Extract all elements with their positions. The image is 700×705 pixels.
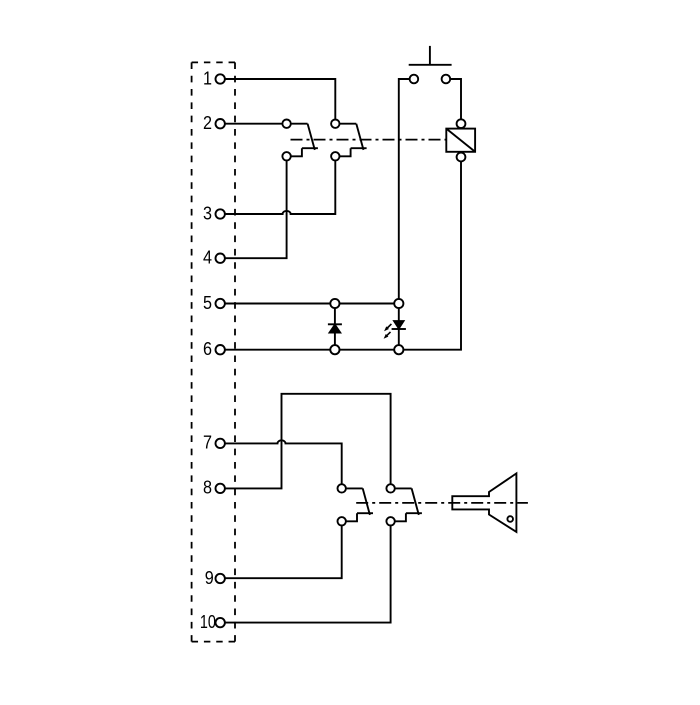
switch contact S2 pole 1: [338, 484, 374, 525]
wire terminal3 to switch2 make contact (hop over wire4 vertical): [225, 161, 335, 215]
wire pushbutton left lead down to terminal5 node: [399, 79, 410, 299]
wire pushbutton right lead down to relay coil top: [450, 79, 461, 119]
mechanical linkage top (switches to relay): [291, 139, 447, 141]
svg-text:4: 4: [203, 248, 212, 268]
LED V2: [384, 321, 406, 338]
diode V1: [328, 324, 342, 332]
pushbutton contact terminals: [410, 75, 451, 84]
terminal 7: [203, 433, 225, 453]
terminal 1: [203, 68, 225, 88]
wire LED branch: [398, 308, 400, 345]
terminal 9: [205, 568, 225, 588]
svg-text:6: 6: [203, 339, 212, 359]
svg-text:10: 10: [200, 612, 216, 632]
svg-text:9: 9: [205, 568, 214, 588]
wire terminal5 to LED node: [225, 303, 399, 305]
svg-text:2: 2: [203, 113, 212, 133]
svg-text:1: 1: [203, 68, 212, 88]
node circle wire5 LED: [394, 299, 403, 308]
node circle wire5 diode: [330, 299, 339, 308]
switch contact S1 pole 2: [331, 120, 367, 161]
terminal 3: [203, 203, 225, 223]
terminal 10: [200, 612, 225, 632]
wire terminal6 to relay coil bottom: [225, 161, 461, 349]
wire terminal10 to switch4 make contact: [225, 526, 391, 623]
svg-text:7: 7: [203, 433, 212, 453]
terminal 4: [203, 248, 225, 268]
terminal 8: [203, 478, 225, 498]
key actuator: [452, 473, 516, 532]
wire terminal7 to switch3 common (hop over rail vertical): [225, 440, 342, 484]
svg-text:5: 5: [203, 293, 212, 313]
wire terminal2 to switch1 common: [225, 123, 283, 125]
wire terminal1 to switch2 common: [225, 79, 335, 120]
node circle wire6 diode: [330, 345, 339, 354]
terminal 6: [203, 339, 225, 359]
terminal 2: [203, 113, 225, 133]
wire terminal9 to switch3 make contact: [225, 526, 342, 579]
svg-text:8: 8: [203, 478, 212, 498]
relay coil K1: [446, 119, 475, 161]
switch contact S2 pole 2: [386, 484, 422, 525]
pushbutton actuator: [409, 46, 452, 65]
wire terminal8 rail to switch4 common: [225, 394, 391, 489]
node circle wire6 LED: [394, 345, 403, 354]
wire diode branch: [334, 308, 336, 345]
wire terminal4 to switch1 make contact: [225, 161, 287, 259]
switch contact S1 pole 1: [282, 120, 318, 161]
svg-text:3: 3: [203, 203, 212, 223]
mechanical linkage bottom (switches to key): [356, 502, 528, 504]
terminal 5: [203, 293, 225, 313]
terminal block dashed outline: [192, 61, 235, 63]
